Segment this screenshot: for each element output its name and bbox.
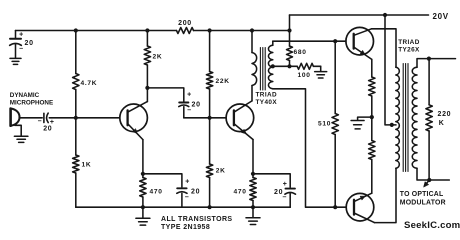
ground below C1 [10, 57, 21, 59]
ground below Q2 emitter resistor [252, 207, 254, 217]
svg-text:TRIAD: TRIAD [398, 39, 420, 46]
svg-text:–: – [38, 118, 43, 125]
transformer T1 TY40X primary winding [252, 53, 257, 86]
transformer T1 TY40X secondary winding [268, 45, 272, 89]
resistor R7 470 Q2 emitter [252, 174, 254, 178]
ground for bias network [320, 66, 322, 71]
svg-text:+: + [185, 179, 190, 186]
wire T1 secondary top to Q3 base [273, 40, 346, 42]
svg-text:2K: 2K [153, 54, 163, 61]
wire Q2 collector riser [251, 86, 253, 101]
resistor 200 [177, 28, 194, 34]
ground below Q1 emitter resistor [142, 207, 144, 217]
svg-text:–: – [185, 194, 190, 201]
svg-text:TO OPTICAL: TO OPTICAL [400, 191, 444, 198]
resistor R12 Q4 emitter [371, 117, 373, 140]
arrow to optical modulator [425, 180, 430, 186]
svg-text:–: – [283, 194, 288, 201]
resistor R9 100 to ground [297, 63, 313, 69]
wire bottom ground rail [76, 206, 290, 208]
svg-text:20: 20 [43, 125, 52, 132]
resistor R3 470 Q1 emitter [142, 174, 144, 178]
ground at emitter midpoint [358, 117, 372, 120]
wire Q3 emitter down [371, 59, 373, 77]
svg-text:20: 20 [191, 188, 200, 195]
resistor R6 2K Q2 base bias lower [209, 118, 211, 164]
transformer T2 core [402, 64, 404, 172]
svg-text:20V: 20V [433, 12, 449, 21]
resistor R2 2K collector load Q1 [146, 31, 148, 47]
transformer T2 TY26X primary winding [396, 67, 400, 168]
svg-text:TY26X: TY26X [398, 47, 420, 54]
wire T2 secondary bottom output [417, 168, 449, 180]
capacitor C2 20uF input coupling [43, 113, 45, 122]
resistor R13 220K across output [428, 59, 430, 105]
wire 20V supply line [290, 14, 429, 16]
resistor R10 510 across T1 secondary [334, 41, 336, 113]
svg-text:+: + [187, 92, 192, 99]
resistor R4 1K Q1 base return [75, 118, 77, 155]
svg-text:TY40X: TY40X [256, 99, 278, 106]
svg-text:20: 20 [25, 40, 34, 47]
svg-text:TYPE 2N1958: TYPE 2N1958 [161, 224, 210, 231]
wire Q4 collector to T2 primary bottom [374, 168, 396, 222]
svg-text:510: 510 [318, 120, 331, 127]
capacitor C5 20uF emitter bypass [286, 188, 295, 190]
svg-text:+: + [283, 181, 288, 188]
svg-text:DYNAMIC: DYNAMIC [10, 92, 40, 99]
svg-text:20: 20 [192, 101, 201, 108]
transistor Q4 2N1958 lower output [346, 193, 374, 221]
svg-text:ALL TRANSISTORS: ALL TRANSISTORS [161, 216, 232, 223]
svg-text:1K: 1K [82, 161, 92, 168]
wire top supply rail left segment [16, 30, 177, 32]
wire Q1 collector tap to C4 [147, 88, 183, 102]
svg-text:220: 220 [438, 111, 452, 118]
wire Q3 collector to T2 primary top [372, 29, 397, 67]
wire Q1 emitter down [142, 140, 144, 174]
svg-text:4.7K: 4.7K [81, 80, 98, 87]
svg-text:MICROPHONE: MICROPHONE [10, 99, 53, 106]
transformer T2 TY26X secondary winding [412, 67, 417, 168]
wire C4 to Q2 base [184, 117, 226, 119]
svg-text:K: K [439, 120, 445, 127]
wire Q2 emitter down [252, 140, 254, 174]
svg-text:MODULATOR: MODULATOR [400, 200, 446, 207]
wire mic to coupling cap [19, 117, 42, 119]
svg-text:22K: 22K [216, 78, 230, 85]
svg-text:470: 470 [234, 188, 247, 195]
wire top supply rail right segment [194, 30, 290, 32]
svg-text:200: 200 [178, 20, 192, 27]
dynamic microphone [9, 109, 12, 126]
wire 20V to T2 primary center tap [385, 15, 396, 125]
svg-text:TRIAD: TRIAD [256, 91, 278, 98]
wire emitter node to bypass cap C5 [253, 174, 290, 187]
wire rail riser to 20V line [289, 15, 291, 31]
resistor R1 4.7K [75, 31, 77, 74]
capacitor C1 20uF supply bypass [15, 31, 17, 39]
transistor Q3 2N1958 upper output [346, 27, 374, 55]
capacitor C3 20uF emitter bypass [177, 187, 186, 189]
svg-text:100: 100 [298, 72, 311, 79]
svg-text:+: + [19, 32, 24, 39]
wire T1 secondary bottom to Q4 base [273, 89, 346, 207]
transistor Q2 2N1958 [226, 104, 254, 132]
transformer T1 core [259, 48, 261, 91]
svg-text:680: 680 [294, 49, 307, 56]
wire T1 secondary center tap [273, 65, 297, 67]
svg-text:SeekIC.com: SeekIC.com [404, 220, 460, 231]
resistor R8 680 bias feed [289, 31, 291, 47]
transistor Q1 2N1958 [120, 104, 148, 132]
capacitor C4 20uF interstage coupling [179, 102, 188, 104]
svg-text:2K: 2K [216, 167, 226, 174]
wire coupling cap to Q1 base [49, 117, 120, 119]
wire T2 secondary top output [417, 59, 456, 68]
svg-text:–: – [187, 107, 192, 114]
resistor R11 Q3 emitter [369, 77, 375, 96]
resistor R5 22K Q2 base bias upper [209, 31, 211, 72]
svg-text:–: – [19, 46, 24, 53]
svg-text:470: 470 [150, 188, 163, 195]
wire emitter node to bypass cap C3 [143, 174, 182, 187]
ground below microphone [15, 125, 21, 135]
